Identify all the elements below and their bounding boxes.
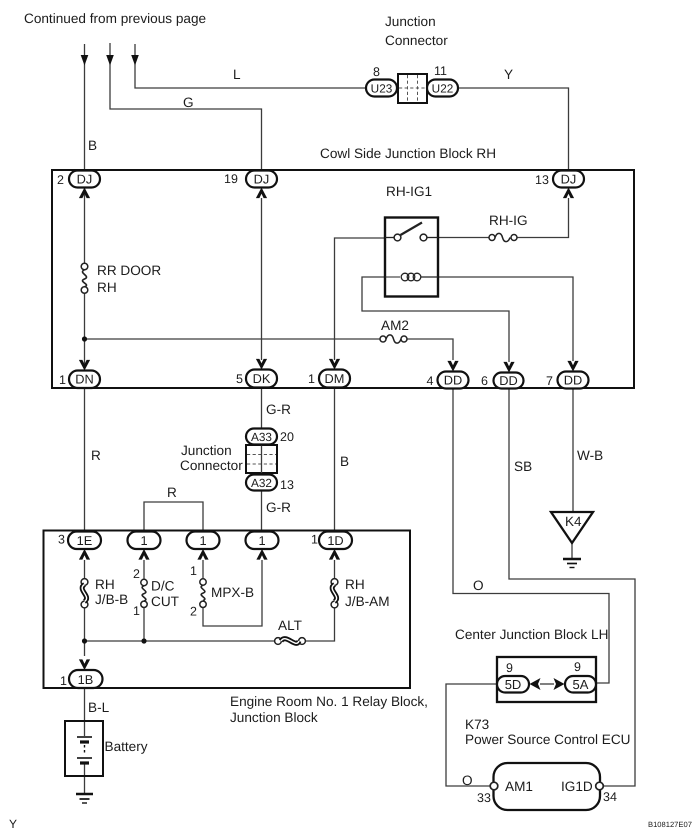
svg-text:A32: A32	[251, 476, 272, 490]
svg-text:W-B: W-B	[577, 448, 603, 463]
svg-text:G-R: G-R	[266, 402, 291, 417]
svg-text:20: 20	[280, 430, 294, 444]
svg-text:1: 1	[258, 533, 265, 548]
svg-text:Engine Room No. 1 Relay Block,: Engine Room No. 1 Relay Block,	[230, 694, 428, 709]
svg-text:DD: DD	[499, 373, 517, 388]
svg-text:DJ: DJ	[254, 172, 270, 187]
svg-text:1: 1	[133, 604, 140, 618]
svg-text:34: 34	[603, 790, 617, 804]
svg-text:Connector: Connector	[385, 33, 448, 48]
svg-text:Center Junction Block LH: Center Junction Block LH	[455, 627, 608, 642]
svg-text:Continued from previous page: Continued from previous page	[24, 11, 206, 26]
svg-text:DK: DK	[253, 371, 271, 386]
svg-text:11: 11	[434, 64, 447, 78]
svg-text:RH: RH	[97, 280, 117, 295]
svg-text:Battery: Battery	[105, 739, 148, 754]
svg-text:13: 13	[280, 478, 294, 492]
svg-text:CUT: CUT	[151, 594, 179, 609]
svg-text:Connector: Connector	[180, 458, 243, 473]
svg-text:MPX-B: MPX-B	[211, 585, 254, 600]
svg-text:5D: 5D	[505, 677, 522, 692]
svg-text:1: 1	[140, 533, 147, 548]
svg-text:U22: U22	[432, 82, 454, 96]
svg-text:RR DOOR: RR DOOR	[97, 263, 161, 278]
svg-text:4: 4	[427, 374, 434, 388]
svg-text:3: 3	[58, 533, 65, 547]
svg-text:1: 1	[308, 372, 315, 386]
svg-text:ALT: ALT	[278, 618, 302, 633]
svg-text:J/B-AM: J/B-AM	[345, 594, 390, 609]
svg-text:2: 2	[133, 567, 140, 581]
svg-text:B: B	[88, 138, 97, 153]
svg-text:B108127E07: B108127E07	[648, 820, 692, 829]
svg-text:DM: DM	[325, 371, 345, 386]
svg-text:DJ: DJ	[561, 172, 577, 187]
svg-text:33: 33	[477, 791, 491, 805]
svg-text:O: O	[473, 578, 484, 593]
svg-text:8: 8	[373, 65, 380, 79]
svg-text:1D: 1D	[327, 533, 343, 548]
svg-text:IG1D: IG1D	[561, 779, 593, 794]
svg-text:B: B	[340, 454, 349, 469]
svg-text:7: 7	[546, 374, 553, 388]
svg-text:19: 19	[224, 172, 238, 186]
svg-text:1: 1	[190, 564, 197, 578]
svg-text:5: 5	[236, 372, 243, 386]
svg-text:AM1: AM1	[505, 779, 533, 794]
svg-text:DD: DD	[564, 373, 582, 388]
svg-text:RH: RH	[345, 577, 365, 592]
svg-text:D/C: D/C	[151, 579, 175, 594]
svg-text:5A: 5A	[573, 677, 589, 692]
svg-text:A33: A33	[251, 430, 272, 444]
svg-text:13: 13	[535, 173, 549, 187]
svg-text:DJ: DJ	[77, 172, 93, 187]
svg-text:6: 6	[481, 374, 488, 388]
svg-text:RH: RH	[95, 577, 115, 592]
svg-text:K4: K4	[565, 514, 582, 529]
svg-text:RH-IG: RH-IG	[489, 213, 528, 228]
svg-text:Cowl Side Junction Block RH: Cowl Side Junction Block RH	[320, 146, 496, 161]
svg-text:G: G	[183, 95, 194, 110]
svg-text:R: R	[91, 448, 101, 463]
svg-text:1E: 1E	[77, 533, 93, 548]
svg-text:2: 2	[57, 173, 64, 187]
svg-text:1: 1	[59, 373, 66, 387]
svg-text:Power Source Control ECU: Power Source Control ECU	[465, 732, 630, 747]
svg-text:Junction: Junction	[181, 443, 232, 458]
svg-text:L: L	[233, 67, 241, 82]
svg-text:Y: Y	[9, 817, 17, 831]
svg-text:DD: DD	[444, 373, 462, 388]
svg-text:SB: SB	[514, 459, 532, 474]
svg-text:Junction: Junction	[385, 14, 436, 29]
svg-text:J/B-B: J/B-B	[95, 592, 128, 607]
svg-text:AM2: AM2	[381, 318, 409, 333]
svg-text:DN: DN	[75, 372, 93, 387]
svg-text:9: 9	[506, 661, 513, 675]
svg-text:1B: 1B	[78, 672, 94, 687]
svg-text:2: 2	[190, 605, 197, 619]
svg-text:B-L: B-L	[88, 700, 110, 715]
svg-text:U23: U23	[371, 82, 393, 96]
svg-text:1: 1	[199, 533, 206, 548]
svg-text:R: R	[167, 485, 177, 500]
svg-text:9: 9	[574, 660, 581, 674]
svg-text:G-R: G-R	[266, 500, 291, 515]
svg-text:Y: Y	[504, 67, 513, 82]
svg-text:RH-IG1: RH-IG1	[386, 184, 432, 199]
svg-text:Junction Block: Junction Block	[230, 710, 318, 725]
svg-text:O: O	[462, 773, 473, 788]
svg-text:1: 1	[311, 533, 318, 547]
svg-text:1: 1	[60, 674, 67, 688]
svg-text:K73: K73	[465, 717, 489, 732]
